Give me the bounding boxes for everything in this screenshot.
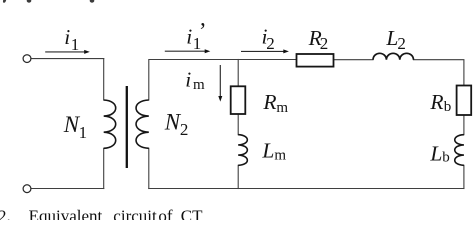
svg-text:circuit: circuit bbox=[113, 207, 157, 220]
svg-text:b: b bbox=[442, 150, 450, 166]
svg-text:i: i bbox=[64, 25, 70, 49]
svg-text:L: L bbox=[261, 139, 274, 163]
svg-text:R: R bbox=[262, 90, 276, 114]
svg-text:i: i bbox=[186, 24, 192, 48]
svg-text:’: ’ bbox=[199, 19, 207, 44]
svg-text:b: b bbox=[444, 99, 452, 115]
svg-text:m: m bbox=[193, 77, 205, 93]
svg-text:1: 1 bbox=[79, 123, 88, 142]
svg-text:2: 2 bbox=[266, 34, 275, 53]
svg-text:2.: 2. bbox=[0, 207, 11, 220]
svg-text:CT: CT bbox=[181, 207, 203, 220]
svg-text:2: 2 bbox=[320, 34, 329, 53]
svg-text:2: 2 bbox=[180, 120, 189, 139]
svg-text:of: of bbox=[158, 207, 173, 220]
svg-text:m: m bbox=[276, 100, 288, 116]
svg-text:i: i bbox=[185, 68, 191, 92]
svg-text:L: L bbox=[429, 141, 442, 165]
svg-text:1: 1 bbox=[71, 35, 80, 54]
svg-text:m: m bbox=[274, 148, 286, 164]
svg-text:Equivalent: Equivalent bbox=[29, 207, 103, 220]
svg-text:R: R bbox=[429, 90, 443, 114]
svg-text:2: 2 bbox=[397, 34, 406, 53]
